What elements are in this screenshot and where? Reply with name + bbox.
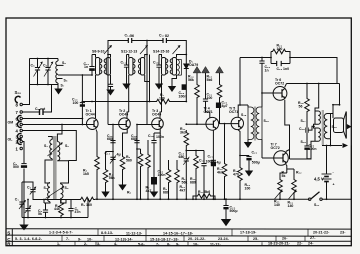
resistor R18 (306, 84, 308, 98)
svg-text:11-12-13-: 11-12-13- (126, 231, 143, 235)
svg-text:680: 680 (107, 137, 113, 141)
resistor R3 (95, 155, 100, 171)
svg-text:5-6-: 5-6- (138, 242, 145, 246)
wire AGC (82, 101, 155, 103)
svg-text:56: 56 (299, 104, 303, 108)
svg-text:OM: OM (8, 121, 14, 125)
capacitor C13 (89, 55, 94, 67)
svg-text:R₂₂: R₂₂ (296, 171, 302, 175)
node Tr3 base column (136, 125, 138, 200)
vertical S5 tap down (81, 75, 83, 125)
wire: tuning gang top line (30, 58, 59, 60)
T4 primary bottom ground (247, 140, 249, 143)
svg-text:3k3: 3k3 (180, 130, 186, 134)
svg-text:10-: 10- (87, 237, 93, 241)
svg-text:S₁: S₁ (44, 144, 48, 148)
svg-text:OC45: OC45 (119, 112, 128, 116)
svg-text:100n: 100n (309, 147, 317, 151)
transistor Tr6 OC72 (262, 84, 287, 102)
svg-text:4,5 V: 4,5 V (314, 177, 324, 182)
oscillator coil S3 (48, 183, 50, 202)
svg-text:56k: 56k (109, 176, 115, 180)
resistor R12 (195, 151, 197, 155)
svg-text:OC71: OC71 (204, 110, 213, 114)
svg-text:1n: 1n (84, 65, 88, 69)
svg-text:560: 560 (126, 158, 132, 162)
svg-text:14-15-16--17--18-: 14-15-16--17--18- (163, 232, 194, 236)
resistor R20 pot (278, 178, 283, 194)
speaker connection arrow top (347, 124, 352, 129)
svg-text:OA79: OA79 (189, 63, 198, 67)
resistor R1 (60, 200, 62, 202)
rail symbol 2 (202, 67, 210, 73)
svg-text:C₁₁: C₁₁ (121, 61, 127, 65)
svg-text:680: 680 (163, 190, 169, 194)
terminal 8 (20, 103, 22, 105)
variable capacitor C8b (45, 59, 50, 85)
table top line (6, 228, 351, 230)
svg-text:47n: 47n (75, 210, 81, 214)
svg-text:10-: 10- (193, 242, 199, 246)
resistor R7 (147, 140, 149, 153)
svg-text:18-23-20-21-: 18-23-20-21- (268, 241, 291, 245)
ground R4 (101, 192, 109, 198)
capacitor C15b column (153, 133, 155, 192)
table label column divider (11, 229, 13, 246)
resistor R17 horizontal (193, 196, 196, 199)
coil S1 (50, 140, 52, 159)
svg-text:1-2-3-4-5-6-7-: 1-2-3-4-5-6-7- (49, 231, 73, 235)
svg-text:R₆: R₆ (127, 191, 132, 195)
wire terminal 6 line (22, 118, 82, 120)
T4 primary S15 (248, 107, 254, 140)
resistor R6 (137, 149, 141, 152)
bus right end up right rail (322, 146, 351, 200)
capacitor C18b trimmer (184, 159, 189, 199)
ground big left (23, 218, 25, 225)
svg-text:24-: 24- (308, 241, 314, 245)
electrolytic C26 (304, 145, 309, 147)
capacitor C15 (124, 55, 129, 84)
coil S2 (57, 142, 59, 161)
svg-text:100n: 100n (156, 135, 164, 139)
svg-text:+: + (333, 183, 335, 187)
svg-text:OC71: OC71 (229, 110, 238, 114)
svg-text:OC72: OC72 (275, 81, 284, 85)
transistor Tr4 OC71 (206, 117, 219, 130)
terminal 7 (20, 111, 22, 113)
terminal 3 with hook (20, 135, 22, 137)
svg-text:C₁₆: C₁₆ (153, 61, 159, 65)
table S row numbers (49, 230, 346, 235)
trimmer C2 (25, 206, 30, 214)
svg-text:23-24-: 23-24- (218, 237, 230, 241)
svg-text:C₁₃: C₁₃ (105, 152, 111, 156)
resistor R16 (217, 83, 222, 99)
rail symbol 3 (216, 67, 224, 73)
svg-text:27-: 27- (310, 236, 316, 240)
switch S21 (320, 198, 322, 200)
trimmer C13 (110, 157, 115, 159)
capacitor C14b (134, 141, 139, 143)
svg-text:OL: OL (8, 138, 14, 142)
resistor R22 parallel cap C23 (271, 49, 287, 54)
capacitor C6 (21, 163, 26, 165)
svg-text:22-: 22- (297, 241, 303, 245)
svg-text:100: 100 (207, 96, 213, 100)
resistor R10 (175, 168, 180, 184)
wire: tuning gang bottom line (30, 84, 59, 86)
svg-text:100: 100 (245, 186, 251, 190)
ground bus main (95, 198, 310, 200)
dots bus (279, 198, 281, 200)
resistor R9 (166, 168, 171, 184)
svg-text:56k: 56k (188, 78, 194, 82)
svg-text:S8-9-10: S8-9-10 (92, 49, 105, 53)
capacitor C16 (156, 55, 161, 84)
T4 secondary top to Tr6 base (261, 93, 263, 107)
wire: antenna input riser (22, 59, 29, 105)
T4 secondary S16 (256, 107, 262, 140)
svg-text:R₁₇ 5k6: R₁₇ 5k6 (198, 190, 210, 194)
top rail wire (240, 58, 268, 106)
svg-text:680: 680 (179, 155, 185, 159)
T4 primary top wire (247, 105, 249, 107)
svg-text:150: 150 (159, 96, 165, 100)
svg-text:1n: 1n (265, 68, 269, 72)
resistor R2 in bus (66, 199, 79, 201)
variable capacitor C8a (35, 59, 40, 85)
svg-text:20- 21-22-: 20- 21-22- (188, 237, 206, 241)
wire Tr5 collector up to rail node (238, 105, 248, 118)
svg-text:S₄: S₄ (65, 186, 69, 190)
svg-text:100n: 100n (206, 159, 214, 163)
terminal 6 with hook (20, 117, 22, 119)
wire terminal 5 line to Tr1 base (22, 124, 94, 126)
wire Tr5 emitter + resistor R15 (238, 130, 240, 166)
svg-text:680: 680 (131, 137, 137, 141)
S18 bottom to Tr7 collector (290, 141, 316, 159)
svg-text:S₁₅: S₁₅ (241, 113, 247, 117)
svg-text:17-18-19-: 17-18-19- (240, 231, 257, 235)
capacitor C19b (201, 151, 206, 200)
svg-text:140: 140 (274, 203, 280, 207)
T4 secondary bottom to Tr7 base (261, 140, 263, 159)
svg-text:S₂₁: S₂₁ (314, 203, 320, 207)
coil taps (58, 65, 92, 78)
svg-text:S₁₇: S₁₇ (301, 119, 307, 123)
capacitor C22e to own ground (240, 155, 249, 157)
resistor R13 (224, 124, 226, 162)
svg-text:C₉ ext: C₉ ext (35, 107, 46, 111)
svg-text:C₈: C₈ (31, 64, 36, 68)
wire from sub-bus up right (87, 199, 89, 217)
svg-text:R₂ 160: R₂ 160 (81, 203, 92, 207)
svg-text:11-12-: 11-12- (210, 242, 221, 246)
svg-text:4k7: 4k7 (217, 170, 223, 174)
svg-text:5- 3- 1-4- 6-8-2-: 5- 3- 1-4- 6-8-2- (15, 237, 43, 241)
svg-text:S₁₆: S₁₆ (264, 119, 270, 123)
svg-text:C₂₁: C₂₁ (208, 155, 214, 159)
svg-text:OC45: OC45 (152, 112, 161, 116)
capacitor C20 hang (259, 58, 264, 94)
svg-text:100n: 100n (179, 94, 187, 98)
junction dots on ground bus (96, 198, 98, 200)
ground C19s (150, 192, 158, 198)
svg-text:82: 82 (165, 34, 169, 38)
table line C/R (6, 240, 351, 242)
terminal 2 (20, 140, 22, 142)
capacitor C9 plates (40, 109, 44, 115)
capacitor C10 electrolytic (80, 102, 85, 104)
ferrite rod (53, 136, 57, 199)
resistor R19 pot (293, 169, 295, 178)
Tr6 emitter to Tr7 collector (285, 101, 290, 159)
svg-text:23-: 23- (340, 230, 346, 234)
svg-text:1n0: 1n0 (283, 67, 289, 71)
transistor Tr5 OC71 (231, 117, 243, 129)
svg-text:26-: 26- (282, 236, 288, 240)
svg-text:C₂₂: C₂₂ (252, 151, 258, 155)
svg-text:C₂: C₂ (21, 205, 26, 209)
svg-text:S₂: S₂ (65, 144, 69, 148)
svg-text:56k: 56k (182, 180, 188, 184)
svg-text:500μ: 500μ (230, 209, 238, 213)
svg-text:500μ: 500μ (252, 161, 260, 165)
wire vertical mid pair (147, 41, 150, 125)
aerial coil S5/S6/S7 (57, 59, 59, 62)
capacitor C19s solid (152, 178, 157, 185)
output transformer T5 (322, 110, 324, 145)
svg-text:S: S (7, 230, 10, 235)
svg-text:500: 500 (13, 165, 19, 169)
wires osc section (22, 182, 33, 218)
svg-text:5k6: 5k6 (207, 78, 213, 82)
jack S20 (15, 96, 20, 102)
osc coil arrow (46, 187, 64, 199)
ground R5 (118, 185, 126, 191)
rod coil arrow (48, 144, 62, 157)
svg-text:680: 680 (190, 180, 196, 184)
svg-text:5k: 5k (38, 212, 42, 216)
svg-text:100: 100 (73, 101, 79, 105)
wires osc coil (44, 198, 66, 203)
svg-text:C₂₃: C₂₃ (277, 67, 283, 71)
bottom feed wire with arrow (322, 139, 342, 146)
wire Tr1 emitter (96, 131, 99, 156)
svg-text:S₇: S₇ (61, 84, 65, 88)
svg-text:S₂₀: S₂₀ (15, 90, 22, 95)
wire Tr3 emitter (154, 129, 160, 133)
terminal 1 (20, 147, 22, 149)
terminal 4 (20, 129, 22, 131)
svg-text:140: 140 (288, 204, 294, 208)
svg-text:20-21-22-: 20-21-22- (313, 230, 330, 234)
svg-text:1k5: 1k5 (83, 172, 89, 176)
svg-text:4k7: 4k7 (180, 188, 186, 192)
svg-text:4μ7: 4μ7 (222, 104, 228, 108)
svg-text:4μ: 4μ (217, 161, 221, 165)
transformer series tap (314, 124, 316, 128)
svg-text:S14-15-16: S14-15-16 (153, 49, 169, 53)
svg-text:OC72: OC72 (271, 146, 280, 150)
wire under Tr4 base (186, 150, 204, 152)
capacitor C19 (203, 99, 208, 101)
wire terminal 4 line (22, 131, 76, 161)
svg-text:OC44: OC44 (86, 112, 95, 116)
diode D1 (184, 64, 189, 102)
capacitor C14 (128, 38, 131, 43)
resistor R11 (185, 130, 187, 131)
speaker (334, 118, 344, 133)
transistor Tr7 OC72 (262, 150, 290, 174)
wire top loop (108, 41, 186, 65)
capacitor C17 (163, 38, 166, 43)
svg-text:15-16-18-17--18-: 15-16-18-17--18- (150, 238, 179, 242)
resistor R4 (105, 152, 107, 169)
svg-text:4k7: 4k7 (146, 189, 152, 193)
trimmer C1 (19, 200, 26, 209)
svg-text:C₂₅: C₂₅ (299, 127, 305, 131)
svg-text:C₃: C₃ (27, 186, 32, 190)
table C row numbers (15, 236, 316, 242)
svg-text:C₈: C₈ (43, 64, 48, 68)
svg-text:C₁₉: C₁₉ (199, 159, 205, 163)
svg-text:25-: 25- (253, 237, 259, 241)
svg-text:470: 470 (233, 172, 239, 176)
rail symbol 1 (193, 67, 201, 73)
wire terminal 2 down to C6 (22, 142, 24, 218)
svg-text:44k: 44k (54, 207, 60, 211)
capacitor C24 electrolytic + ground (223, 199, 228, 205)
svg-text:12-13)-14-: 12-13)-14- (115, 238, 133, 242)
wire x318.7 down to transformer (315, 84, 319, 112)
svg-text:S11-12-13: S11-12-13 (121, 49, 137, 53)
wire Tr6 collector rail (287, 83, 340, 85)
wire detector to Tr4 base (186, 123, 213, 125)
transistor Tr2 OC45 (108, 118, 130, 130)
wire Tr4 emitter down (212, 130, 214, 199)
junction dot C8a top (37, 58, 39, 60)
speaker top feed (331, 84, 340, 114)
terminal 5 (20, 123, 22, 125)
resistor R14 (195, 83, 200, 99)
table group divider ticks (62, 229, 308, 246)
ground tuning section (54, 89, 62, 95)
table line S/C (6, 235, 351, 236)
capacitor C4 (43, 203, 48, 218)
svg-text:S₁₉: S₁₉ (332, 125, 338, 129)
bottom left bus (22, 217, 88, 219)
wires rod upper coil (45, 137, 52, 184)
svg-text:100n: 100n (158, 173, 166, 177)
svg-text:8-9-13-: 8-9-13- (101, 231, 114, 235)
junction dots (27, 199, 29, 201)
svg-text:S₃: S₃ (44, 186, 48, 190)
wire Tr2 emitter + resistor R5 (123, 129, 128, 155)
transistor Tr3 OC45 (137, 118, 163, 130)
svg-text:56: 56 (130, 34, 134, 38)
svg-text:S₅: S₅ (64, 79, 68, 83)
capacitor C7 (68, 200, 73, 218)
table R row numbers (57, 241, 314, 246)
capacitor C9 wire (22, 85, 51, 113)
svg-text:100: 100 (277, 47, 283, 51)
capacitor C21 electrolytic on emitter (211, 159, 216, 161)
transistor Tr1 OC44 (87, 118, 99, 131)
svg-text:S₆: S₆ (62, 61, 66, 65)
svg-text:C₁₅: C₁₅ (148, 134, 154, 138)
svg-text:5k: 5k (282, 174, 286, 178)
trimmer C3 (30, 186, 35, 195)
capacitor C25 coupling (306, 128, 308, 133)
node Tr2 base column (112, 125, 114, 200)
svg-text:C₁: C₁ (15, 198, 20, 202)
svg-text:S₁₈: S₁₈ (301, 140, 307, 144)
capacitor C18s solid (182, 84, 187, 90)
oscillator coil S4 (61, 184, 63, 198)
wire Tr7 emitter (280, 173, 287, 178)
battery 4.5V (326, 146, 328, 174)
capacitor C20 electrolytic on stem (216, 103, 220, 108)
capacitor C12 (110, 141, 115, 143)
resistor R7 150 (155, 99, 171, 104)
svg-text:4μ: 4μ (117, 153, 121, 157)
